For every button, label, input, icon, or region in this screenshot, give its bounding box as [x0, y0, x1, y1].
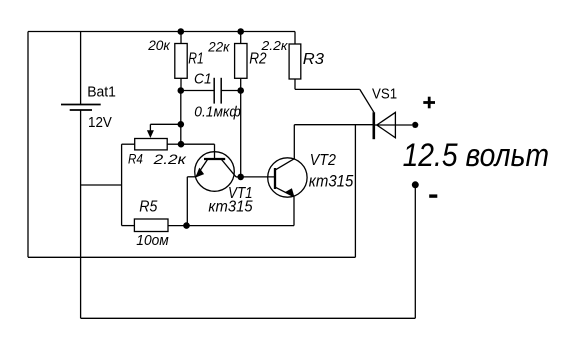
- svg-text:R2: R2: [249, 51, 267, 68]
- capacitor C1: [181, 71, 241, 121]
- wire gate diagonal: [360, 89, 374, 112]
- wire bottom rail lower: [81, 317, 416, 319]
- svg-text:R3: R3: [303, 51, 325, 68]
- node R5 right junction: [183, 222, 190, 229]
- wire VT2 collector riser: [293, 125, 295, 159]
- node minus output terminal: [412, 181, 419, 188]
- svg-text:22к: 22к: [207, 40, 230, 55]
- svg-text:20к: 20к: [147, 38, 170, 53]
- wire R5 left lead: [122, 225, 135, 227]
- svg-text:Bat1: Bat1: [87, 84, 116, 101]
- plus sign: [423, 97, 435, 109]
- wire minus terminal riser: [414, 185, 416, 318]
- svg-text:VS1: VS1: [372, 87, 397, 103]
- transistor VT1: [187, 152, 252, 216]
- resistor R2: [207, 32, 267, 91]
- node R1 bottom C1 left: [178, 87, 185, 94]
- node plus output terminal: [412, 122, 418, 128]
- wire R5 right lead: [168, 225, 187, 227]
- wire right riser to thyristor cathode: [354, 125, 356, 258]
- svg-text:2.2к: 2.2к: [260, 38, 288, 53]
- svg-text:12V: 12V: [88, 114, 112, 131]
- wire R4 left lead: [122, 143, 135, 145]
- node R2 top: [237, 28, 244, 35]
- svg-text:C1: C1: [194, 71, 212, 88]
- potentiometer R4: [128, 124, 188, 167]
- svg-text:0.1мкф: 0.1мкф: [194, 105, 241, 121]
- svg-text:R5: R5: [139, 199, 158, 216]
- wire top bus: [28, 31, 295, 33]
- wire left riser R4-R5: [121, 144, 123, 225]
- svg-text:кт315: кт315: [208, 199, 252, 216]
- wire R4 wiper: [150, 123, 180, 125]
- svg-text:кт315: кт315: [309, 172, 354, 190]
- resistor R3: [260, 32, 324, 90]
- wire R2 node riser to VT1 collector: [240, 91, 242, 177]
- svg-text:12.5 вольт: 12.5 вольт: [403, 137, 549, 173]
- battery Bat1: [61, 84, 116, 131]
- wire R3 to gate horizontal: [295, 88, 360, 90]
- transistor VT2: [268, 152, 354, 197]
- wire battery tap to divider: [81, 184, 122, 186]
- wire VT1 base vertical: [214, 144, 216, 159]
- minus sign: [429, 194, 437, 197]
- node wiper junction: [178, 121, 185, 128]
- wire bottom rail upper: [28, 256, 355, 258]
- wire R4 right lead: [167, 143, 181, 145]
- svg-text:R4: R4: [128, 152, 143, 167]
- wire VT1 base horizontal: [181, 143, 215, 145]
- svg-text:10ом: 10ом: [136, 233, 169, 249]
- wire VT2 collector to VS1 cathode: [294, 124, 374, 126]
- wire R1 node riser: [180, 91, 182, 145]
- thyristor VS1: [372, 87, 412, 140]
- node R4 right junction: [178, 141, 185, 148]
- svg-text:R1: R1: [188, 51, 203, 68]
- wire VT1 collector to VT2 base: [241, 176, 275, 178]
- resistor R1: [147, 32, 203, 91]
- wire VT1 emitter drop: [186, 177, 188, 226]
- node VT1 collector VT2 base: [237, 174, 244, 181]
- svg-text:VT2: VT2: [310, 152, 336, 169]
- node R2 bottom C1 right: [237, 87, 244, 94]
- wire battery top lead: [80, 32, 82, 105]
- wire emitter bottom to R5: [187, 225, 295, 227]
- wire battery bottom lead: [80, 110, 82, 318]
- resistor R5: [134, 199, 168, 249]
- node R1 top: [178, 28, 185, 35]
- wire left edge down: [27, 32, 29, 258]
- wire VT2 emitter drop: [293, 197, 295, 226]
- svg-text:2.2к: 2.2к: [152, 151, 187, 167]
